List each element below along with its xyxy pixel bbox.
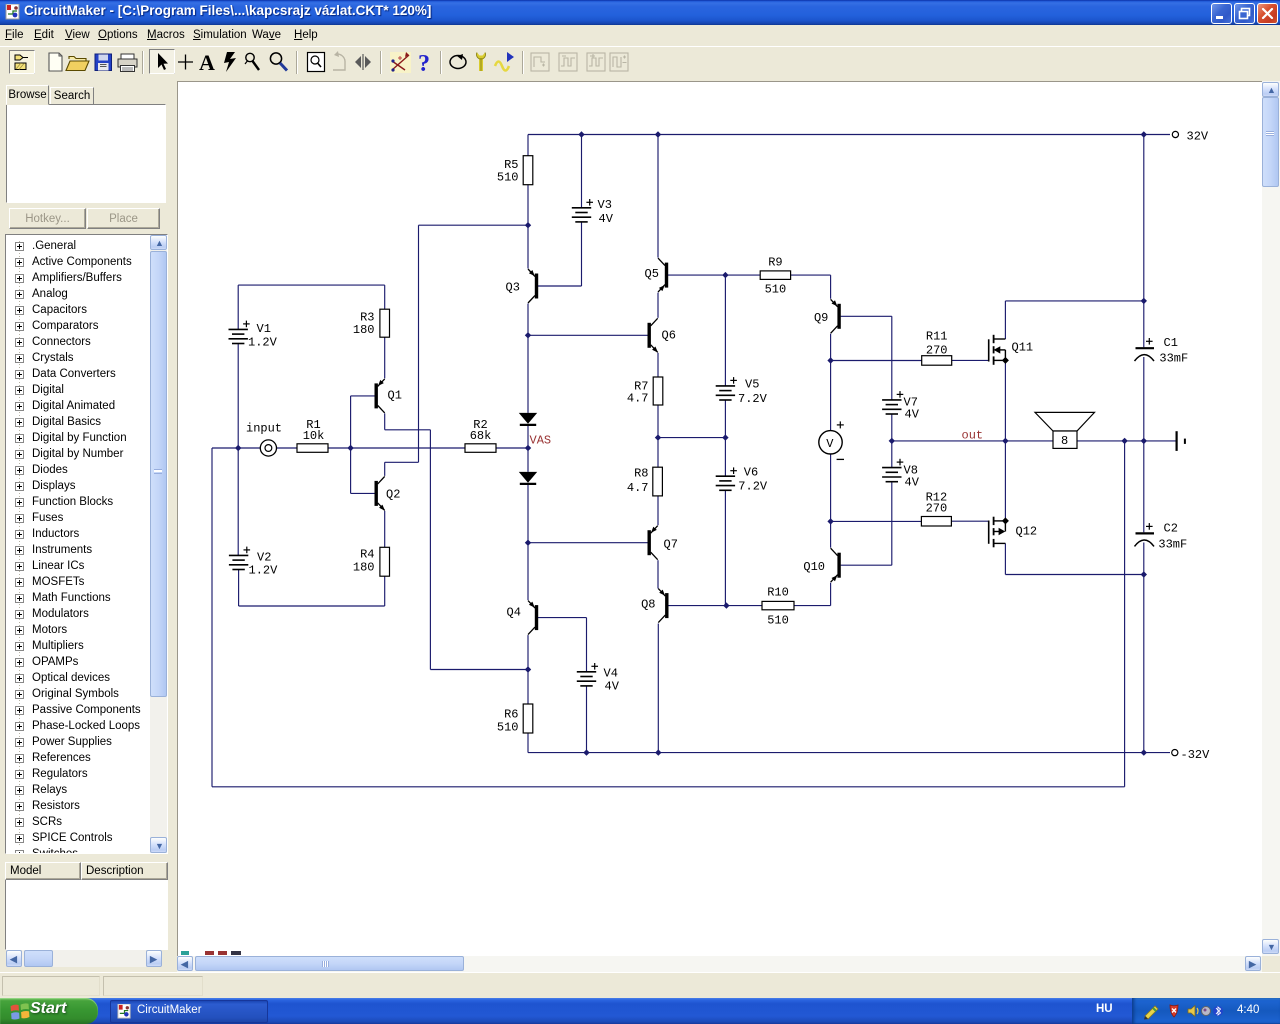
svg-text:V: V xyxy=(826,437,834,451)
taskbar xyxy=(0,998,1280,1024)
node Q12 source-C2 xyxy=(1141,571,1147,577)
transistor Q1 xyxy=(376,379,402,413)
voltmeter V xyxy=(819,421,844,459)
wire Q11 drain run xyxy=(1005,301,1143,339)
svg-text:out: out xyxy=(962,428,984,442)
wire Q9 collector to node xyxy=(830,334,832,361)
svg-text:33mF: 33mF xyxy=(1158,538,1187,552)
wire C2 top lead xyxy=(1143,441,1145,532)
svg-text:7.2V: 7.2V xyxy=(738,392,768,406)
boxed magnifier xyxy=(308,53,325,72)
print xyxy=(118,54,137,72)
shield xyxy=(1170,1005,1178,1017)
capacitor C2 xyxy=(1135,522,1188,552)
svg-text:32V: 32V xyxy=(1187,129,1209,143)
svg-text:R10: R10 xyxy=(767,586,789,600)
svg-text:V3: V3 xyxy=(598,198,612,212)
status bar xyxy=(0,972,1280,998)
wire V5 bottom / V6 top xyxy=(724,275,726,605)
svg-text:Q5: Q5 xyxy=(645,267,659,281)
node Q6 base xyxy=(525,332,531,338)
artifact dashes above h-scrollbar xyxy=(181,951,271,955)
battery V4 xyxy=(577,663,620,694)
svg-text:Q4: Q4 xyxy=(507,606,521,620)
arrow tool (selected) xyxy=(150,50,175,74)
node Q8C-rail xyxy=(655,749,661,755)
split arrows xyxy=(355,54,371,70)
wire Q3 collector to D1 xyxy=(527,304,529,413)
svg-text:Q11: Q11 xyxy=(1012,341,1034,355)
wire C1 bottom lead xyxy=(1143,357,1145,441)
wire Q4 base to V4 top xyxy=(538,618,587,672)
wire +32V rail xyxy=(528,134,1170,136)
wire Q12 source run xyxy=(1005,543,1143,574)
wire Q7 collector to Q8 emitter xyxy=(657,560,659,588)
canvas vertical scrollbar xyxy=(1262,81,1280,956)
node Q8base-V6 xyxy=(723,602,729,608)
svg-text:?: ? xyxy=(418,51,430,77)
wire Q6 emitter to R7 xyxy=(657,353,659,377)
transistor Q6 xyxy=(649,318,676,352)
svg-text:33mF: 33mF xyxy=(1159,352,1188,366)
model/description xyxy=(5,862,81,880)
wire out rail xyxy=(892,440,1176,442)
node input-bases xyxy=(347,445,353,451)
battery V7 xyxy=(882,391,920,422)
wave run xyxy=(495,52,514,71)
wire C1 top lead xyxy=(1143,135,1145,348)
wire R8 leads xyxy=(657,438,659,526)
svg-text:4V: 4V xyxy=(905,408,920,422)
wire node to R12 xyxy=(831,520,922,522)
node feedback-out xyxy=(1121,438,1127,444)
resistor R7 xyxy=(627,377,663,406)
wire left feedback loop xyxy=(212,441,1125,787)
terminal +32V xyxy=(1172,129,1209,143)
svg-text:510: 510 xyxy=(497,721,519,735)
wire Q10 base to V8 xyxy=(841,482,892,566)
probe points colored xyxy=(390,52,411,73)
node VAS xyxy=(525,445,531,451)
svg-text:R4: R4 xyxy=(360,548,374,562)
transistor Q8 xyxy=(641,589,667,623)
svg-text:R11: R11 xyxy=(926,329,948,343)
battery V5 xyxy=(716,377,768,406)
svg-text:VAS: VAS xyxy=(530,433,552,447)
rotate (gray) xyxy=(333,51,345,70)
transistor Q2 xyxy=(376,476,400,510)
svg-text:Q1: Q1 xyxy=(388,389,402,403)
pencil icon xyxy=(1145,1006,1158,1019)
wire Q4 collector down xyxy=(527,635,529,669)
wire Q9 base to V7 xyxy=(841,316,892,400)
wire Q10 collector xyxy=(830,521,832,547)
wire V1-V2 column through input node xyxy=(237,344,239,556)
node Q11Q12-out xyxy=(1002,438,1008,444)
transistor Q3 xyxy=(506,269,537,303)
resistor R9 xyxy=(760,256,790,297)
menu bar xyxy=(0,25,1280,46)
task button xyxy=(110,1000,268,1023)
title bar xyxy=(0,0,1280,25)
reset circle arrow xyxy=(450,54,466,69)
node input-V1 xyxy=(235,445,241,451)
open xyxy=(66,57,89,71)
wire Q3 emitter lead xyxy=(527,225,529,268)
wrench yellow xyxy=(477,53,486,72)
plus xyxy=(178,55,193,70)
wire Q5 collector to rail xyxy=(657,135,659,258)
battery V1 xyxy=(229,321,278,350)
wire D1 to VAS node xyxy=(527,425,529,472)
ground xyxy=(1177,431,1185,451)
resistor R11 xyxy=(922,329,952,365)
HU xyxy=(1096,1003,1113,1015)
resistor R10 xyxy=(762,586,794,628)
resistor R1 xyxy=(297,418,328,452)
transistor Q5 xyxy=(645,258,667,292)
wire V4 bottom to rail xyxy=(586,686,588,753)
wire R3 bottom to Q1 emitter xyxy=(384,337,386,378)
diode D2 xyxy=(519,472,537,484)
wire bias node to Q4 emitter xyxy=(527,543,529,600)
svg-text:1.2V: 1.2V xyxy=(248,335,278,349)
wire Q6 base xyxy=(528,334,648,336)
left panel xyxy=(0,80,176,970)
canvas horizontal scrollbar xyxy=(177,956,1262,972)
magnifier xyxy=(270,53,287,71)
transistor Q9 xyxy=(814,299,839,333)
svg-text:input: input xyxy=(246,421,282,435)
wire C2 bottom lead xyxy=(1143,543,1145,753)
wire R7 bottom to mid node xyxy=(657,405,659,438)
node C1C2-out xyxy=(1141,438,1147,444)
node rail-Q5 xyxy=(655,131,661,137)
resistor R12 xyxy=(921,491,951,527)
node bias-Q7base xyxy=(525,540,531,546)
wire Q12 drain to out xyxy=(1004,441,1006,521)
canvas xyxy=(177,81,1262,956)
svg-text:C2: C2 xyxy=(1164,522,1178,536)
wire Q8 collector to rail xyxy=(657,624,659,753)
svg-text:510: 510 xyxy=(767,614,789,628)
svg-text:V5: V5 xyxy=(745,378,759,392)
input terminal xyxy=(246,421,282,456)
node Q9C-R11 xyxy=(827,357,833,363)
svg-text:180: 180 xyxy=(353,561,375,575)
wire D2 to bias node xyxy=(527,484,529,543)
wire Q1 collector run to node A xyxy=(385,413,528,669)
svg-text:510: 510 xyxy=(765,283,787,297)
wire R5 top lead xyxy=(527,135,529,156)
svg-text:8: 8 xyxy=(1061,434,1068,448)
svg-text:Q10: Q10 xyxy=(803,560,825,574)
wire R5 bottom lead xyxy=(527,185,529,226)
svg-text:270: 270 xyxy=(926,501,948,515)
wire V1 loop top xyxy=(238,285,385,329)
resistor R3 xyxy=(353,309,390,337)
wire R9 to Q9 emitter xyxy=(791,275,831,299)
bolt xyxy=(224,52,236,72)
node Q4C-R6 xyxy=(525,666,531,672)
wire Q11 source to out xyxy=(1004,360,1006,441)
wire Q5 base to R9 xyxy=(668,274,760,276)
wire -32V rail xyxy=(528,752,1170,754)
svg-text:180: 180 xyxy=(353,323,375,337)
svg-text:-32V: -32V xyxy=(1181,748,1211,762)
resistor R2 xyxy=(465,418,496,452)
node R5-Q3 xyxy=(525,222,531,228)
speaker xyxy=(1188,1006,1195,1017)
svg-text:68k: 68k xyxy=(470,429,492,443)
node rail-V3 xyxy=(578,131,584,137)
svg-text:4V: 4V xyxy=(905,476,920,490)
svg-text:Q3: Q3 xyxy=(506,281,520,295)
MOSFET Q11 xyxy=(989,335,1033,365)
transistor Q4 xyxy=(507,601,537,635)
svg-text:7.2V: 7.2V xyxy=(738,480,768,494)
svg-text:V1: V1 xyxy=(257,322,271,336)
wire Q5 emitter to Q6 collector xyxy=(657,293,659,318)
wire base column Q1/Q2 xyxy=(351,396,375,494)
svg-text:1.2V: 1.2V xyxy=(249,564,279,578)
svg-text:Q8: Q8 xyxy=(641,598,655,612)
tray xyxy=(1132,998,1280,1024)
node Q11 drain-C1 xyxy=(1141,298,1147,304)
svg-text:4.7: 4.7 xyxy=(627,392,649,406)
wire bias node to Q7 base xyxy=(528,542,648,544)
svg-text:270: 270 xyxy=(926,343,948,357)
resistor R8 xyxy=(627,467,663,496)
wire R10 right to Q10 emitter xyxy=(794,583,831,606)
node Q5base-V5 xyxy=(722,272,728,278)
tree vertical scrollbar xyxy=(150,235,167,250)
speaker LS1 xyxy=(1035,412,1095,448)
transistor Q7 xyxy=(649,526,678,560)
svg-text:510: 510 xyxy=(497,171,519,185)
battery V3 xyxy=(572,198,614,226)
svg-text:4.7: 4.7 xyxy=(627,481,649,495)
round gray xyxy=(1202,1007,1211,1016)
battery V6 xyxy=(716,465,768,493)
svg-text:A: A xyxy=(199,50,215,75)
resistor R4 xyxy=(353,547,390,576)
wire input line xyxy=(212,447,528,449)
resistor R5 xyxy=(497,156,533,185)
node rail-C1 xyxy=(1141,131,1147,137)
save xyxy=(95,54,112,71)
wire mid node to V5/V6 node xyxy=(658,437,725,439)
part browser toggle button xyxy=(10,51,35,74)
svg-text:10k: 10k xyxy=(303,429,325,443)
svg-text:Q9: Q9 xyxy=(814,311,828,325)
terminal -32V xyxy=(1172,748,1210,762)
wire node to R10 left xyxy=(726,605,762,607)
svg-text:Q6: Q6 xyxy=(662,329,676,343)
new xyxy=(49,53,62,71)
transistor Q10 xyxy=(803,548,839,582)
node V5V6 xyxy=(722,434,728,440)
svg-text:R8: R8 xyxy=(634,467,648,481)
start button xyxy=(0,998,98,1024)
bluetooth xyxy=(1213,1006,1223,1016)
wire voltmeter leads xyxy=(830,361,832,522)
svg-text:Q2: Q2 xyxy=(386,488,400,502)
svg-text:4V: 4V xyxy=(605,680,620,694)
node V7V8-out xyxy=(889,438,895,444)
svg-text:R9: R9 xyxy=(768,256,782,270)
svg-text:R6: R6 xyxy=(504,707,518,721)
diode D1 xyxy=(519,413,537,425)
4 grayed digital buttons xyxy=(531,53,628,71)
svg-text:V6: V6 xyxy=(744,465,758,479)
wire R4 bottom to V2 xyxy=(239,570,385,606)
battery V8 xyxy=(882,459,920,490)
wire Q8 base to node xyxy=(668,605,726,607)
battery V2 xyxy=(229,547,278,578)
wire V3 top lead xyxy=(581,135,583,208)
svg-text:Q7: Q7 xyxy=(664,538,678,552)
node Q10C-R12 xyxy=(827,518,833,524)
node R7R8 mid xyxy=(655,434,661,440)
svg-text:V4: V4 xyxy=(604,667,618,681)
svg-text:Q12: Q12 xyxy=(1016,525,1038,539)
svg-text:4V: 4V xyxy=(599,212,614,226)
toolbar xyxy=(0,46,1280,80)
svg-text:V2: V2 xyxy=(257,551,271,565)
capacitor C1 xyxy=(1135,336,1189,366)
wire Q3 base to V3 xyxy=(538,222,582,286)
wire Q2-collector riser to R5 node xyxy=(385,225,528,476)
wire R11 to Q11 gate xyxy=(952,359,989,361)
wire V7 bottom / V8 top at out node xyxy=(891,414,893,467)
wire R6 leads xyxy=(527,670,529,753)
node V4-rail xyxy=(583,749,589,755)
node C2-rail xyxy=(1141,749,1147,755)
probe xyxy=(245,53,259,70)
MOSFET Q12 xyxy=(989,517,1037,548)
wire node to R11 xyxy=(831,360,922,362)
wire Q2 emitter to R4 xyxy=(384,511,386,547)
wire R12 to Q12 gate xyxy=(951,520,988,522)
resistor R6 xyxy=(497,704,533,735)
svg-text:C1: C1 xyxy=(1164,336,1178,350)
